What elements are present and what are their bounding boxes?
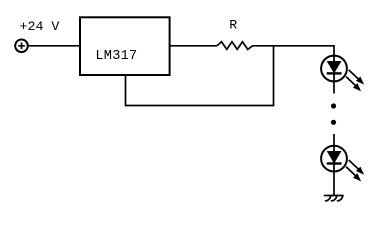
wire U1 output to R	[170, 45, 217, 47]
ellipsis dot 2	[331, 120, 336, 125]
LED D1 light arrows	[346, 70, 363, 91]
wire ADJ feedback: U1 bottom pin down, right, up to node after R	[126, 46, 274, 106]
ellipsis dot 1	[331, 103, 336, 108]
ground	[325, 196, 344, 201]
wire D2 cathode to ground	[333, 172, 335, 196]
wire R to LED column	[253, 45, 335, 47]
op-amp U1 LM317 regulator box	[80, 17, 170, 75]
LED D1	[321, 56, 347, 82]
wire node to LED D1	[333, 45, 335, 56]
node +24V input terminal	[15, 40, 28, 53]
wire terminal to U1	[28, 45, 80, 47]
svg-text:LM317: LM317	[95, 49, 137, 64]
svg-text:R: R	[229, 18, 237, 33]
svg-text:+24 V: +24 V	[20, 19, 60, 34]
LED D2	[321, 146, 347, 172]
wire D1 cathode stub	[333, 81, 335, 93]
wire to LED D2	[333, 134, 335, 146]
LED D2 light arrows	[346, 160, 363, 181]
resistor R	[217, 42, 253, 50]
